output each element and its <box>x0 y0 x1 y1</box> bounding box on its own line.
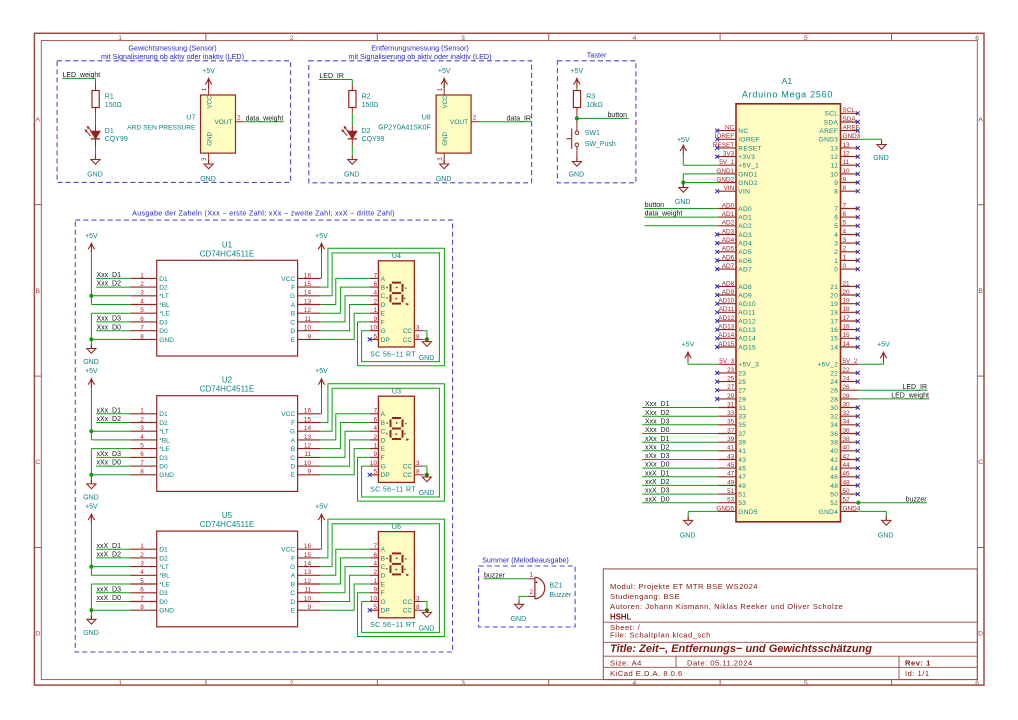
svg-text:+5V: +5V <box>315 233 328 240</box>
pin 53 53 <box>718 497 746 508</box>
svg-text:+5V: +5V <box>85 504 98 511</box>
display U3 SC56-11 <box>370 386 416 493</box>
dashed box Ausgabe der Zahlen <box>75 220 452 652</box>
no-connect <box>715 293 719 297</box>
svg-text:12: 12 <box>304 443 312 450</box>
svg-text:+5V: +5V <box>85 233 98 240</box>
svg-text:G: G <box>290 429 295 436</box>
pin 35 35 <box>718 419 746 430</box>
pin VIN VIN <box>718 185 750 196</box>
svg-text:D1: D1 <box>159 547 168 554</box>
svg-text:2: 2 <box>373 569 377 576</box>
pin 27 27 <box>718 384 746 395</box>
pin 7 7 <box>834 202 858 213</box>
svg-text:8: 8 <box>834 189 838 196</box>
svg-text:*LE: *LE <box>159 311 170 318</box>
pin 24 24 <box>830 376 858 387</box>
wire <box>321 431 370 457</box>
svg-text:AD15: AD15 <box>718 341 734 348</box>
svg-text:F: F <box>291 285 295 292</box>
svg-text:6: 6 <box>834 215 838 222</box>
pin GND1 GND1 <box>716 168 757 179</box>
svg-text:47: 47 <box>738 474 746 481</box>
svg-text:2: 2 <box>140 416 144 423</box>
no-connect <box>856 440 860 444</box>
wire <box>321 287 370 313</box>
svg-text:8: 8 <box>843 185 847 192</box>
no-connect <box>715 233 719 237</box>
svg-text:26: 26 <box>830 388 838 395</box>
svg-text:U6: U6 <box>392 522 401 531</box>
svg-text:AD1: AD1 <box>722 211 735 218</box>
svg-text:GND: GND <box>159 608 174 615</box>
pin 19 19 <box>830 298 858 309</box>
svg-text:VCC: VCC <box>281 547 295 554</box>
label xxX_D3 <box>96 586 130 593</box>
svg-text:10: 10 <box>304 460 312 467</box>
svg-text:47: 47 <box>727 471 735 478</box>
svg-text:31: 31 <box>727 401 735 408</box>
svg-text:CD74HC4511E: CD74HC4511E <box>200 385 255 394</box>
pin 43 43 <box>718 453 746 464</box>
svg-text:VOUT: VOUT <box>214 119 232 126</box>
svg-text:6: 6 <box>843 211 847 218</box>
svg-text:15: 15 <box>843 332 851 339</box>
svg-text:+5V: +5V <box>438 68 451 75</box>
pins U2 right <box>281 408 320 480</box>
no-connect <box>856 207 860 211</box>
svg-text:B: B <box>36 288 41 295</box>
svg-text:GND: GND <box>873 155 889 162</box>
svg-text:SC 56−11 RT: SC 56−11 RT <box>370 487 416 494</box>
svg-text:8: 8 <box>140 469 144 476</box>
svg-text:53: 53 <box>738 500 746 507</box>
svg-text:GND4: GND4 <box>843 505 861 512</box>
svg-text:51: 51 <box>738 492 746 499</box>
pin 48 48 <box>830 479 858 490</box>
dashed box Taster <box>557 61 636 183</box>
pin 14 14 <box>830 341 858 352</box>
svg-text:CC: CC <box>403 599 413 606</box>
wire <box>320 253 323 278</box>
svg-text:GND1: GND1 <box>716 168 734 175</box>
pin GND4 GND4 <box>819 505 861 516</box>
svg-text:1: 1 <box>140 543 144 550</box>
pin 11 11 <box>831 159 859 170</box>
svg-text:6: 6 <box>140 587 144 594</box>
svg-text:HSHL: HSHL <box>610 613 631 622</box>
no-connect <box>856 380 860 384</box>
svg-text:B: B <box>291 581 296 588</box>
svg-text:11: 11 <box>304 451 311 458</box>
svg-text:7: 7 <box>140 595 144 602</box>
svg-text:AD8: AD8 <box>738 284 752 291</box>
svg-text:3: 3 <box>201 157 208 161</box>
svg-text:7: 7 <box>140 460 144 467</box>
svg-text:GND: GND <box>675 199 691 206</box>
svg-text:5V_1: 5V_1 <box>719 159 734 166</box>
no-connect <box>856 432 860 436</box>
svg-text:GND: GND <box>419 626 435 633</box>
wire <box>576 108 578 131</box>
power +5V <box>85 368 98 388</box>
svg-text:6: 6 <box>373 281 377 288</box>
svg-text:B: B <box>978 288 983 295</box>
svg-text:D: D <box>290 464 295 471</box>
svg-text:40: 40 <box>830 448 838 455</box>
pin 51 51 <box>718 488 746 499</box>
svg-text:button: button <box>608 112 628 119</box>
svg-text:+5V: +5V <box>315 504 328 511</box>
svg-text:U8: U8 <box>422 112 431 121</box>
svg-text:+5V: +5V <box>877 342 890 349</box>
svg-text:13: 13 <box>304 434 312 441</box>
svg-text:AD3: AD3 <box>738 232 752 239</box>
svg-text:6: 6 <box>140 451 144 458</box>
wire <box>321 305 370 331</box>
pin 42 42 <box>830 453 858 464</box>
pin 21 21 <box>830 280 858 291</box>
pin SCL SCL <box>824 107 858 118</box>
svg-text:AD5: AD5 <box>738 249 752 256</box>
svg-text:9: 9 <box>307 604 311 611</box>
svg-text:AD7: AD7 <box>722 263 735 270</box>
svg-text:CQY99: CQY99 <box>362 136 385 143</box>
pin AD6 AD6 <box>718 254 752 265</box>
svg-text:GND: GND <box>83 359 99 366</box>
pins U5 left <box>131 543 175 615</box>
svg-text:RESET: RESET <box>713 142 734 149</box>
svg-text:5: 5 <box>140 578 144 585</box>
svg-text:14: 14 <box>843 341 851 348</box>
wire <box>91 584 130 619</box>
svg-text:ARD SEN PRESSURE: ARD SEN PRESSURE <box>127 124 196 131</box>
label button <box>644 202 718 209</box>
svg-text:37: 37 <box>738 431 746 438</box>
svg-text:12: 12 <box>304 578 312 585</box>
wire <box>858 511 886 520</box>
no-connect <box>856 241 860 245</box>
pin RESET RESET <box>713 142 762 153</box>
svg-text:16: 16 <box>304 272 312 279</box>
pin 5V_2 +5V_2 <box>817 358 858 369</box>
no-connect <box>856 181 860 185</box>
svg-text:AD6: AD6 <box>738 258 752 265</box>
svg-text:30: 30 <box>843 401 851 408</box>
svg-text:CD74HC4511E: CD74HC4511E <box>200 249 255 258</box>
svg-text:18: 18 <box>843 306 851 313</box>
no-connect <box>856 233 860 237</box>
svg-text:C: C <box>290 455 295 462</box>
no-connect <box>715 388 719 392</box>
svg-text:R1: R1 <box>105 94 114 101</box>
pin 52 52 <box>830 497 858 508</box>
svg-text:1: 1 <box>834 258 838 265</box>
svg-text:+5V: +5V <box>202 68 215 75</box>
pin 9 9 <box>834 176 858 187</box>
svg-text:10: 10 <box>370 460 378 467</box>
wire <box>351 108 353 132</box>
svg-text:20: 20 <box>843 289 851 296</box>
svg-text:F: F <box>291 420 295 427</box>
svg-text:D: D <box>35 631 40 638</box>
label LED_IR <box>319 73 352 80</box>
pin 1 1 <box>834 254 858 265</box>
wire <box>321 296 370 322</box>
pin 34 34 <box>830 419 858 430</box>
pin 38 38 <box>830 436 858 447</box>
ground <box>344 156 360 179</box>
label Xxx_D3 <box>642 418 718 425</box>
no-connect <box>856 155 860 159</box>
svg-text:29: 29 <box>727 393 735 400</box>
pin 49 49 <box>718 479 746 490</box>
wire <box>351 139 353 156</box>
svg-text:4: 4 <box>373 425 377 432</box>
svg-text:36: 36 <box>843 427 851 434</box>
power +5V <box>315 233 328 253</box>
svg-text:D: D <box>290 599 295 606</box>
ground <box>419 338 435 362</box>
pin 29 29 <box>718 393 746 404</box>
resistor R2 <box>349 91 379 109</box>
svg-text:11: 11 <box>304 316 311 323</box>
wire <box>321 567 370 593</box>
svg-text:13: 13 <box>830 145 838 152</box>
pin AD5 AD5 <box>718 246 752 257</box>
pin SDA SDA <box>824 116 859 127</box>
no-connect <box>715 137 719 141</box>
ground <box>680 516 696 539</box>
label Xxx_D3 <box>96 316 130 323</box>
svg-text:3: 3 <box>140 561 144 568</box>
svg-text:GND: GND <box>878 532 894 539</box>
svg-text:36: 36 <box>830 431 838 438</box>
pin AD15 AD15 <box>718 341 756 352</box>
svg-text:D: D <box>381 302 386 309</box>
svg-text:*BL: *BL <box>159 573 170 580</box>
svg-text:15: 15 <box>304 552 312 559</box>
pin AD10 AD10 <box>718 298 756 309</box>
svg-text:GND: GND <box>159 337 174 344</box>
svg-text:AD1: AD1 <box>738 215 752 222</box>
svg-text:8: 8 <box>140 333 144 340</box>
ground <box>675 184 691 207</box>
svg-text:B: B <box>381 420 386 427</box>
pin 20 20 <box>830 289 858 300</box>
svg-text:41: 41 <box>738 448 746 455</box>
svg-text:43: 43 <box>738 457 746 464</box>
pin 47 47 <box>718 471 746 482</box>
label Xxx_D0 <box>96 324 130 331</box>
pin AD8 AD8 <box>718 280 752 291</box>
svg-text:E: E <box>381 581 386 588</box>
no-connect DP <box>368 608 372 612</box>
svg-text:16: 16 <box>304 543 312 550</box>
svg-text:DP: DP <box>381 337 391 344</box>
svg-text:5V_2: 5V_2 <box>843 358 858 365</box>
pin 4 4 <box>834 228 858 239</box>
svg-text:A1: A1 <box>782 76 793 86</box>
svg-text:File: Schaltplan.kicad_sch: File: Schaltplan.kicad_sch <box>610 631 711 640</box>
svg-text:5: 5 <box>140 443 144 450</box>
pin 36 36 <box>830 427 858 438</box>
label button <box>577 112 629 119</box>
svg-text:46: 46 <box>830 474 838 481</box>
pin AD7 AD7 <box>718 263 752 274</box>
svg-text:52: 52 <box>830 500 838 507</box>
junction <box>89 294 93 298</box>
no-connect <box>856 284 860 288</box>
svg-text:BZ1: BZ1 <box>550 582 563 589</box>
pin 5 5 <box>834 220 858 231</box>
svg-text:50: 50 <box>830 492 838 499</box>
pin 17 17 <box>830 315 858 326</box>
svg-text:AD4: AD4 <box>722 237 735 244</box>
svg-text:AD0: AD0 <box>722 202 735 209</box>
wire <box>644 225 718 227</box>
pin 1 VCC <box>201 84 208 95</box>
svg-text:29: 29 <box>738 396 746 403</box>
svg-text:27: 27 <box>738 388 746 395</box>
svg-text:21: 21 <box>843 280 851 287</box>
wire <box>321 584 370 610</box>
svg-text:A: A <box>291 302 296 309</box>
label buzzer <box>484 572 528 579</box>
svg-text:U4: U4 <box>392 251 401 260</box>
svg-text:19: 19 <box>830 301 838 308</box>
wire <box>321 414 370 440</box>
svg-text:A: A <box>291 573 296 580</box>
pins U1 left <box>131 272 175 344</box>
pin 31 31 <box>718 401 746 412</box>
svg-text:3: 3 <box>461 35 465 42</box>
svg-text:D: D <box>381 437 386 444</box>
svg-text:VIN: VIN <box>738 189 750 196</box>
svg-text:10: 10 <box>843 168 851 175</box>
label Xxx_D1 <box>642 401 718 408</box>
no-connect <box>715 258 719 262</box>
svg-text:13: 13 <box>304 298 312 305</box>
svg-text:4: 4 <box>140 569 144 576</box>
dashed box Summer <box>479 566 575 627</box>
svg-text:C: C <box>978 459 983 466</box>
svg-text:AD9: AD9 <box>738 292 752 299</box>
svg-text:16: 16 <box>304 408 312 415</box>
svg-text:Title: Zeit−, Entfernungs− und: Title: Zeit−, Entfernungs− und Gewichtss… <box>610 643 872 655</box>
label xxX_D2 <box>642 479 718 486</box>
svg-text:C: C <box>381 564 386 571</box>
svg-text:AD14: AD14 <box>738 336 756 343</box>
no-connect <box>715 146 719 150</box>
pin 41 41 <box>718 445 746 456</box>
svg-text:50: 50 <box>843 488 851 495</box>
svg-text:5: 5 <box>373 469 377 476</box>
label data_weight <box>644 211 718 218</box>
svg-text:D1: D1 <box>159 411 168 418</box>
svg-text:27: 27 <box>727 384 735 391</box>
svg-text:+5V_2: +5V_2 <box>817 362 838 369</box>
wire <box>321 549 370 575</box>
svg-text:AD4: AD4 <box>738 241 752 248</box>
svg-text:GND: GND <box>419 490 435 497</box>
svg-text:+5V: +5V <box>85 368 98 375</box>
svg-text:buzzer: buzzer <box>906 496 928 503</box>
label data_weight <box>243 115 283 122</box>
no-connect <box>856 310 860 314</box>
label xXx_D2 <box>96 416 130 423</box>
pins U2 left <box>131 408 175 480</box>
svg-text:D3: D3 <box>159 319 168 326</box>
no-connect <box>856 129 860 133</box>
wire <box>95 139 97 156</box>
wire G net <box>321 388 440 497</box>
no-connect <box>715 310 719 314</box>
label xXx_D1 <box>642 436 718 443</box>
label xxX_D1 <box>96 543 130 550</box>
svg-text:SW_Push: SW_Push <box>585 141 616 148</box>
power +5V <box>677 137 690 165</box>
pins U4 CC <box>403 325 423 344</box>
svg-text:NC: NC <box>738 128 748 135</box>
svg-text:9: 9 <box>834 180 838 187</box>
svg-text:G: G <box>381 599 386 606</box>
pin NC NC <box>718 125 748 136</box>
svg-text:E: E <box>381 311 386 318</box>
svg-text:+5V_1: +5V_1 <box>738 163 759 170</box>
wire <box>683 164 718 166</box>
wire <box>423 602 427 611</box>
no-connect <box>856 414 860 418</box>
pin AD9 AD9 <box>718 289 752 300</box>
svg-text:11: 11 <box>843 159 850 166</box>
svg-text:C: C <box>290 319 295 326</box>
svg-text:15: 15 <box>304 281 312 288</box>
note Ausgabe title <box>132 208 395 217</box>
svg-text:10kΩ: 10kΩ <box>586 102 603 109</box>
no-connect <box>856 475 860 479</box>
svg-text:44: 44 <box>830 466 838 473</box>
svg-text:23: 23 <box>738 370 746 377</box>
svg-text:CC: CC <box>403 328 413 335</box>
svg-text:31: 31 <box>738 405 746 412</box>
svg-text:9: 9 <box>373 316 377 323</box>
svg-text:14: 14 <box>830 344 838 351</box>
wire <box>321 313 370 339</box>
svg-text:Id: 1/1: Id: 1/1 <box>905 669 930 678</box>
ground <box>873 141 889 162</box>
pin 25 25 <box>718 376 746 387</box>
no-connect <box>715 302 719 306</box>
svg-text:Size: A4: Size: A4 <box>610 658 642 667</box>
pin 1 VCC <box>437 84 449 109</box>
svg-text:5: 5 <box>804 35 808 42</box>
svg-text:2: 2 <box>843 246 847 253</box>
svg-text:18: 18 <box>830 310 838 317</box>
svg-text:49: 49 <box>727 479 735 486</box>
label xxX_D0 <box>642 496 718 503</box>
no-connect DP <box>368 337 372 341</box>
pin GND5 GND5 <box>716 505 757 516</box>
svg-text:26: 26 <box>843 384 851 391</box>
svg-text:AD11: AD11 <box>719 306 735 313</box>
pin 16 16 <box>830 324 858 335</box>
label Xxx_D1 <box>96 272 130 279</box>
pins U3 left <box>370 408 391 480</box>
ground <box>200 160 216 183</box>
svg-text:+3V3: +3V3 <box>738 154 755 161</box>
no-connect <box>856 293 860 297</box>
